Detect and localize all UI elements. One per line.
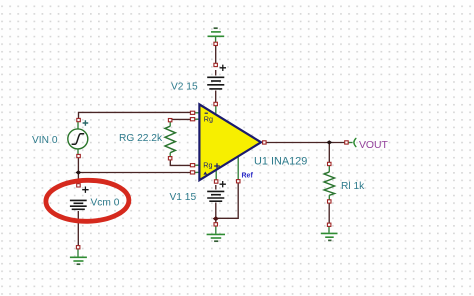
svg-text:Ref: Ref [242, 172, 254, 179]
svg-text:Vcm 0: Vcm 0 [91, 197, 120, 208]
svg-text:Rg: Rg [204, 115, 213, 124]
svg-text:U1 INA129: U1 INA129 [254, 155, 307, 167]
svg-text:VIN 0: VIN 0 [32, 135, 58, 146]
svg-text:VOUT: VOUT [359, 140, 389, 151]
svg-text:Rg: Rg [203, 160, 212, 169]
svg-text:V2 15: V2 15 [171, 82, 198, 93]
svg-text:V1 15: V1 15 [170, 192, 197, 203]
svg-text:RG 22.2k: RG 22.2k [119, 133, 163, 144]
svg-text:Rl 1k: Rl 1k [341, 181, 365, 192]
